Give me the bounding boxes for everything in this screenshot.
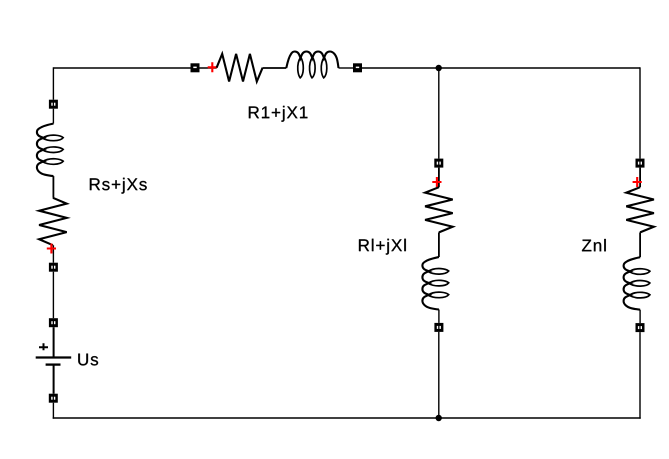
red polarity mark + on Rs <box>47 244 56 254</box>
wire R1 left lead <box>199 67 216 69</box>
junction node dot bottom <box>436 415 442 421</box>
wire between Xs coil and Rs zigzag <box>52 176 54 198</box>
wire Rl top lead <box>438 168 440 188</box>
wire top from left corner to R1 terminal <box>53 67 190 69</box>
wire between R1 zigzag and X1 coil <box>263 67 287 69</box>
terminal square R1 pin 2 <box>353 63 362 72</box>
wire left branch top vertical <box>52 67 54 99</box>
wire between Znl zigzag and coil <box>639 232 641 257</box>
label R1+jX1 <box>249 106 308 122</box>
label Rs+jXs <box>90 178 147 194</box>
junction node dot top (load branch tap) <box>436 65 442 71</box>
resistor Rl (zigzag of Rl+jXl) <box>425 187 453 232</box>
wire Rl branch bottom vertical <box>438 332 440 418</box>
battery short plate (negative) <box>46 363 61 365</box>
wire left branch bottom vertical <box>52 403 54 419</box>
wire bottom horizontal <box>53 417 641 419</box>
wire Znl coil bottom lead <box>639 310 641 323</box>
wire top from R1 to top-right corner <box>362 67 640 69</box>
red polarity mark + on R1 <box>208 62 217 72</box>
terminal square Rl pin 2 <box>434 323 443 332</box>
inductor Xs (coil of Rs+jXs) <box>37 124 63 177</box>
label Us <box>78 354 98 366</box>
terminal square Us pin - <box>49 394 58 403</box>
wire between Rl zigzag and Xl coil <box>438 232 440 257</box>
terminal square Znl pin 2 <box>636 323 645 332</box>
terminal square Znl pin 1 <box>636 159 645 168</box>
wire X1 right lead <box>339 67 354 69</box>
label Rl+jXl <box>359 239 406 255</box>
wire Znl top lead <box>639 168 641 188</box>
wire Xl bottom lead <box>438 310 440 323</box>
voltage source Us battery top lead <box>53 327 55 357</box>
label Znl <box>582 239 606 251</box>
red polarity mark + on Rl <box>432 177 441 187</box>
voltage source Us battery bottom lead <box>53 365 55 394</box>
wire Xs top lead <box>52 109 54 124</box>
terminal square Rs pin 2 <box>49 263 58 272</box>
red polarity mark + on Znl <box>633 177 642 187</box>
resistor part of Znl (zigzag) <box>626 187 654 232</box>
inductor X1 (coil of R1+jX1) <box>286 52 338 78</box>
battery plus sign <box>39 343 48 350</box>
wire Znl branch top vertical <box>639 67 641 158</box>
inductor Xl (coil of Rl+jXl) <box>422 257 448 310</box>
battery long plate (positive) <box>36 356 71 358</box>
resistor R1 (zigzag of R1+jX1) <box>217 54 263 82</box>
wire Rs bottom lead <box>52 245 54 263</box>
wire Znl branch bottom vertical <box>639 332 641 419</box>
resistor Rs (zigzag of Rs+jXs) <box>39 198 67 245</box>
terminal square Us pin + <box>49 318 58 327</box>
terminal square Rl pin 1 <box>434 159 443 168</box>
inductor part of Znl (coil) <box>624 257 650 310</box>
terminal square R1 pin 1 <box>191 63 200 72</box>
wire from Rs to Us <box>52 272 54 319</box>
wire Rl branch top vertical <box>438 68 440 159</box>
terminal square Rs pin 1 <box>49 100 58 109</box>
